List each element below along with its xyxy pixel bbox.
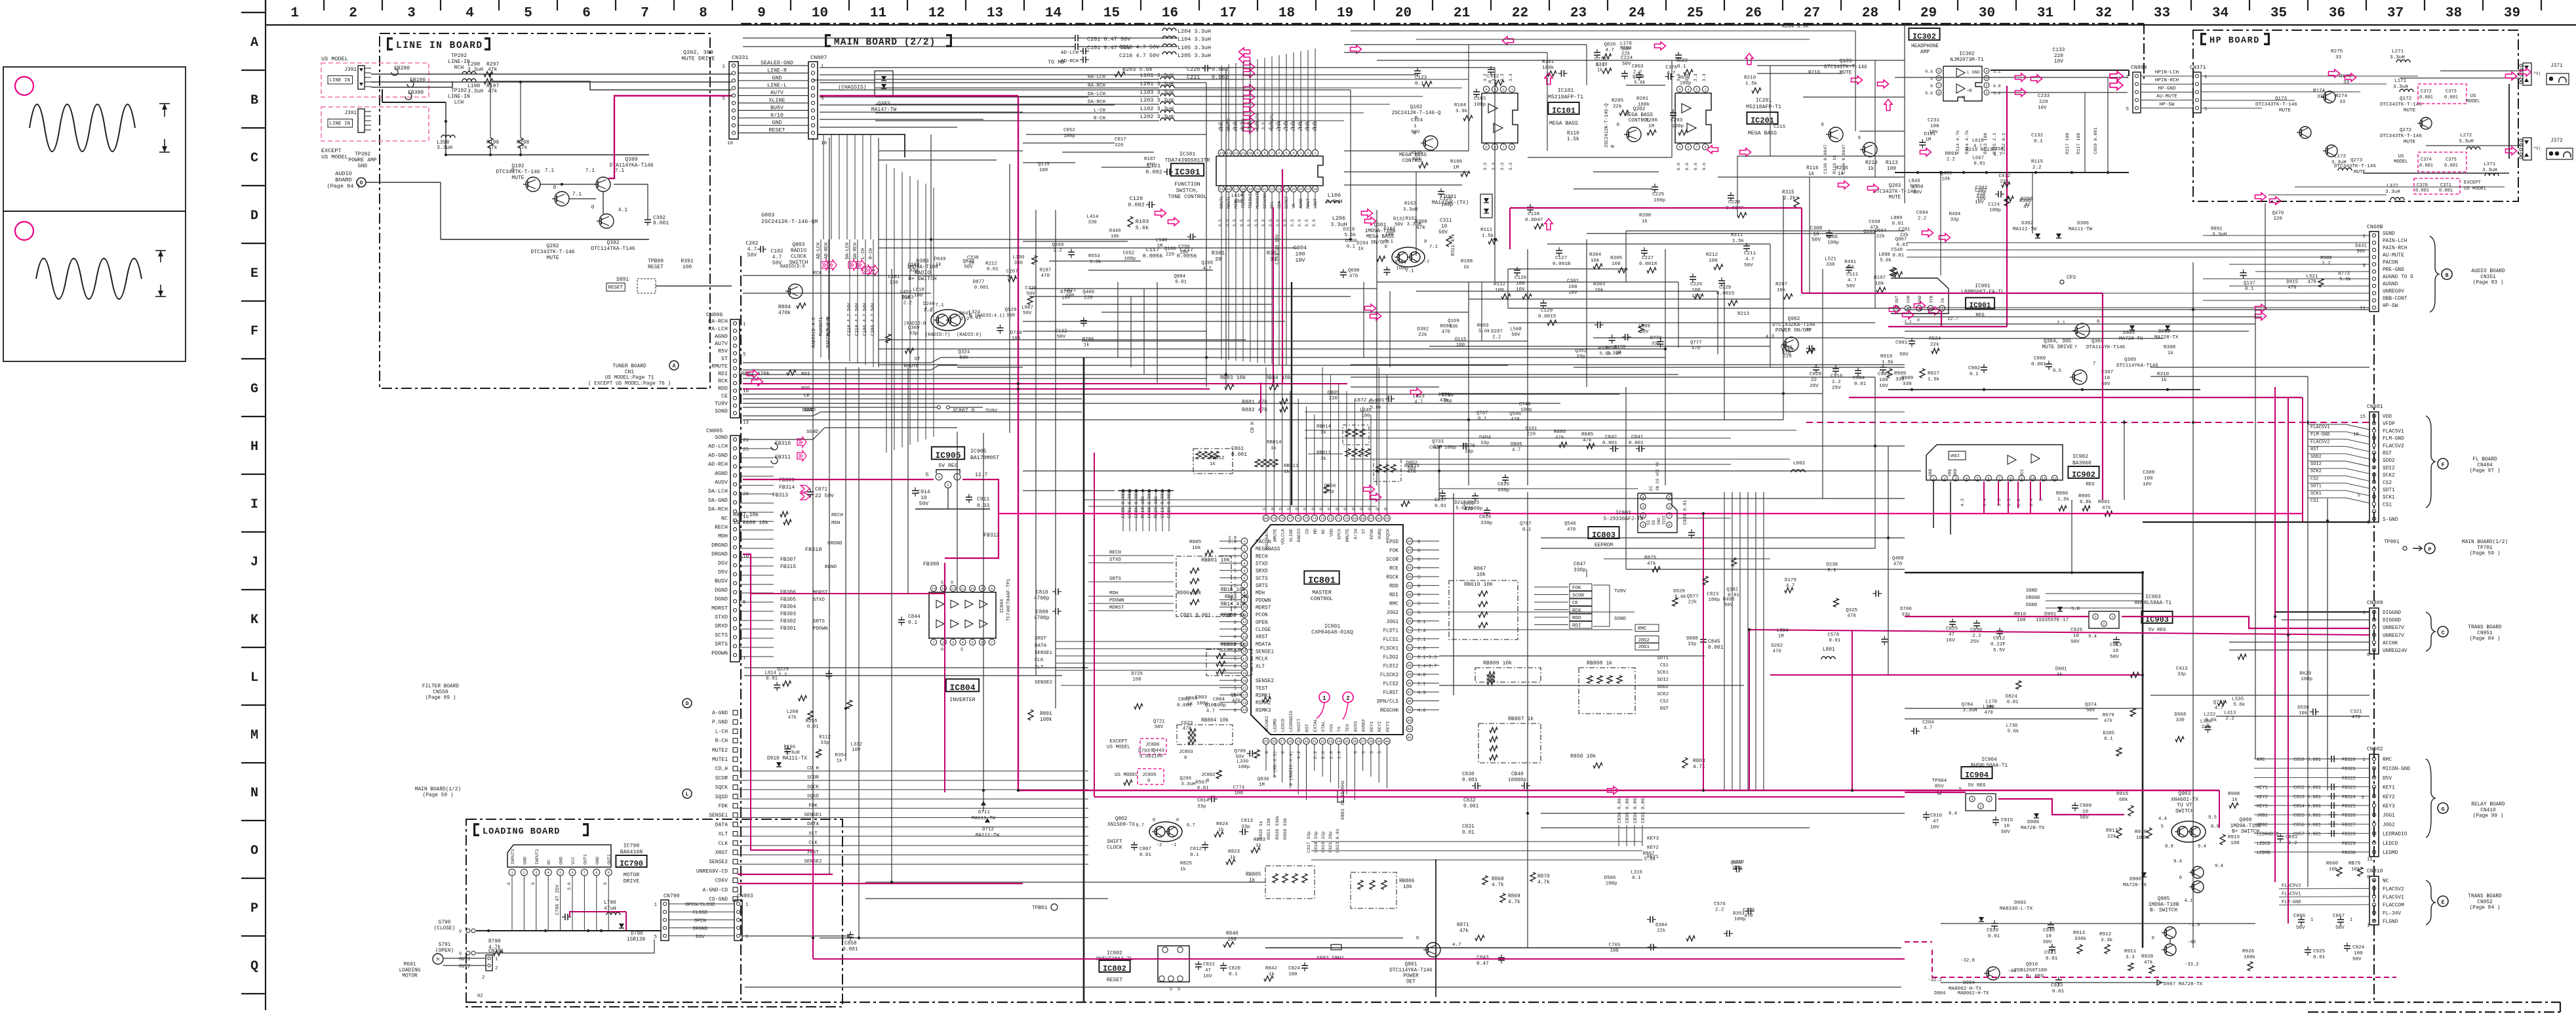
svg-text:L201 3.3uH: L201 3.3uH bbox=[1140, 81, 1174, 87]
svg-text:FLACCOM: FLACCOM bbox=[2383, 903, 2404, 908]
svg-text:CN806: CN806 bbox=[706, 312, 723, 318]
svg-text:D5V: D5V bbox=[718, 561, 728, 567]
svg-text:0: 0 bbox=[1424, 239, 1427, 245]
svg-text:0.01: 0.01 bbox=[1973, 161, 1985, 167]
svg-text:MA728-TX: MA728-TX bbox=[2119, 336, 2143, 342]
svg-text:IN: IN bbox=[1941, 298, 1945, 303]
svg-text:XLINE: XLINE bbox=[1289, 529, 1294, 542]
svg-text:32: 32 bbox=[1320, 739, 1325, 744]
svg-text:30: 30 bbox=[1304, 739, 1309, 744]
svg-text:US: US bbox=[2470, 94, 2476, 99]
svg-text:FB390: FB390 bbox=[408, 90, 424, 96]
svg-text:Q909: Q909 bbox=[2240, 818, 2252, 823]
svg-text:FB303: FB303 bbox=[780, 611, 796, 617]
svg-text:10: 10 bbox=[812, 6, 828, 21]
svg-text:Q374: Q374 bbox=[2085, 702, 2097, 708]
svg-text:5: 5 bbox=[1234, 562, 1237, 567]
magenta into IC905 bbox=[743, 479, 934, 480]
circled F bbox=[2438, 458, 2448, 469]
svg-text:FLDI2: FLDI2 bbox=[1383, 664, 1399, 669]
svg-text:FLSCK1: FLSCK1 bbox=[1380, 646, 1398, 651]
svg-text:XN4601-TX: XN4601-TX bbox=[2171, 798, 2198, 803]
magenta +B vertical bbox=[2006, 86, 2008, 275]
svg-text:220: 220 bbox=[2039, 100, 2048, 105]
svg-text:2.2: 2.2 bbox=[1313, 751, 1318, 759]
svg-text:1SS355TE-17: 1SS355TE-17 bbox=[2036, 618, 2069, 623]
svg-text:AUDIO: AUDIO bbox=[335, 171, 352, 177]
svg-text:1k: 1k bbox=[936, 262, 941, 268]
svg-text:LEDMD: LEDMD bbox=[2257, 851, 2270, 856]
svg-text:0.001: 0.001 bbox=[1602, 441, 1617, 446]
magenta bright bus 783 bbox=[999, 513, 2303, 514]
svg-text:C912: C912 bbox=[1993, 636, 2006, 641]
svg-text:L818: L818 bbox=[913, 287, 924, 293]
svg-text:2.4: 2.4 bbox=[1417, 628, 1426, 634]
svg-text:100: 100 bbox=[1039, 168, 1048, 173]
svg-text:48: 48 bbox=[1408, 681, 1412, 686]
svg-text:7: 7 bbox=[1937, 83, 1939, 88]
svg-text:26: 26 bbox=[1299, 187, 1303, 192]
svg-text:AUSV: AUSV bbox=[715, 480, 728, 486]
svg-text:TU9V: TU9V bbox=[715, 401, 728, 407]
svg-text:SGND: SGND bbox=[2383, 232, 2395, 237]
svg-text:SWITCH: SWITCH bbox=[2175, 809, 2194, 814]
svg-text:AUGND: AUGND bbox=[2383, 282, 2398, 287]
magenta top right runs bbox=[1510, 207, 1802, 209]
svg-text:JOG1: JOG1 bbox=[2257, 813, 2268, 819]
svg-text:27: 27 bbox=[1280, 739, 1284, 744]
svg-text:A: A bbox=[250, 35, 258, 51]
svg-text:3.5: 3.5 bbox=[1247, 122, 1252, 130]
svg-text:SK CS VCC NC: SK CS VCC NC bbox=[1655, 461, 1660, 491]
svg-text:2: 2 bbox=[1642, 514, 1644, 518]
svg-text:R850 10k: R850 10k bbox=[1570, 753, 1596, 760]
pink arrows L106 bbox=[1361, 209, 1372, 217]
svg-text:R214 4.7k: R214 4.7k bbox=[1965, 130, 1970, 154]
magenta long horizontal 1205 bbox=[1018, 790, 2219, 791]
svg-text:L738: L738 bbox=[1912, 184, 1924, 190]
svg-text:2: 2 bbox=[947, 483, 949, 487]
svg-text:3.5: 3.5 bbox=[1312, 122, 1317, 130]
svg-text:L: L bbox=[686, 792, 689, 798]
svg-text:L222: L222 bbox=[2204, 712, 2215, 718]
svg-text:0: 0 bbox=[1616, 123, 1619, 128]
svg-text:D6V: D6V bbox=[696, 935, 705, 940]
svg-text:45: 45 bbox=[1408, 708, 1412, 712]
svg-text:VREF: VREF bbox=[1950, 454, 1960, 458]
svg-text:C228: C228 bbox=[1728, 200, 1741, 205]
svg-text:100: 100 bbox=[1709, 258, 1718, 264]
svg-text:RMC: RMC bbox=[1638, 626, 1647, 632]
svg-text:68k: 68k bbox=[2119, 798, 2128, 803]
svg-text:100k: 100k bbox=[1040, 718, 1052, 723]
IC790 pins bbox=[509, 869, 515, 876]
svg-text:LEDCD: LEDCD bbox=[2383, 842, 2398, 847]
svg-text:35: 35 bbox=[1345, 739, 1349, 744]
middle band extra verticals bbox=[1117, 282, 1119, 357]
svg-text:L101 3.3uH: L101 3.3uH bbox=[1140, 72, 1174, 79]
svg-text:RSCK: RSCK bbox=[1386, 575, 1398, 580]
LOADING BOARD title bbox=[477, 823, 479, 827]
S791 wire bbox=[476, 952, 518, 954]
svg-text:4.8: 4.8 bbox=[1417, 646, 1426, 651]
svg-text:2: 2 bbox=[1943, 476, 1945, 481]
svg-text:0: 0 bbox=[591, 205, 595, 211]
IC301 pins top bbox=[1218, 150, 1225, 156]
svg-text:MD: MD bbox=[1313, 529, 1318, 534]
svg-text:DGND: DGND bbox=[715, 597, 728, 603]
transistor Q192 bbox=[526, 177, 540, 192]
svg-text:50V: 50V bbox=[1622, 62, 1631, 67]
svg-text:STXD: STXD bbox=[715, 615, 728, 620]
svg-text:0.22F: 0.22F bbox=[1991, 642, 2006, 647]
svg-text:FLRST: FLRST bbox=[1383, 691, 1399, 696]
svg-text:47: 47 bbox=[1949, 632, 1954, 638]
svg-text:10V: 10V bbox=[1930, 825, 1939, 830]
svg-text:L667: L667 bbox=[1972, 155, 1984, 161]
svg-text:G: G bbox=[2441, 806, 2444, 813]
svg-text:D520: D520 bbox=[1345, 239, 1357, 244]
svg-text:220: 220 bbox=[2273, 216, 2282, 222]
svg-text:R926: R926 bbox=[2242, 949, 2255, 954]
svg-text:D750: D750 bbox=[1060, 290, 1072, 295]
svg-text:D706: D706 bbox=[1900, 607, 1912, 612]
svg-text:SDI2: SDI2 bbox=[2383, 466, 2395, 471]
svg-text:0.0056: 0.0056 bbox=[1143, 253, 1163, 260]
svg-text:24: 24 bbox=[1284, 187, 1289, 192]
IC802 label bbox=[1099, 960, 1130, 972]
svg-text:D815: D815 bbox=[2286, 279, 2298, 285]
svg-text:CE: CE bbox=[1572, 601, 1579, 606]
svg-text:R840: R840 bbox=[1226, 931, 1238, 937]
svg-text:1k: 1k bbox=[1320, 457, 1326, 462]
svg-text:0: 0 bbox=[1153, 818, 1155, 823]
Q905 transistors bbox=[2164, 927, 2176, 939]
svg-text:C321: C321 bbox=[2350, 710, 2362, 715]
svg-text:8: 8 bbox=[1704, 145, 1706, 150]
svg-text:100: 100 bbox=[1456, 343, 1465, 348]
svg-text:1.5k: 1.5k bbox=[1928, 377, 1940, 382]
svg-text:5: 5 bbox=[1285, 151, 1287, 155]
svg-text:50V: 50V bbox=[2080, 815, 2089, 821]
svg-text:C375: C375 bbox=[2446, 157, 2457, 163]
svg-text:70: 70 bbox=[1345, 516, 1349, 521]
svg-text:6: 6 bbox=[1687, 145, 1689, 150]
svg-text:FB321: FB321 bbox=[2342, 767, 2356, 772]
svg-text:L535: L535 bbox=[2232, 697, 2244, 702]
svg-text:8: 8 bbox=[1937, 91, 1939, 95]
svg-text:50V: 50V bbox=[1913, 190, 1922, 195]
svg-text:100p: 100p bbox=[1827, 240, 1839, 245]
svg-text:3.3uH: 3.3uH bbox=[1403, 207, 1417, 213]
svg-text:5: 5 bbox=[743, 352, 746, 357]
IC905 label bbox=[932, 447, 964, 459]
svg-text:JOG1: JOG1 bbox=[1638, 645, 1650, 650]
svg-text:3.5: 3.5 bbox=[1269, 122, 1273, 130]
svg-text:R174: R174 bbox=[2313, 89, 2326, 94]
svg-text:R909: R909 bbox=[1901, 376, 1914, 381]
HP wires bbox=[2201, 75, 2418, 77]
svg-text:R5V: R5V bbox=[1935, 784, 1944, 790]
svg-text:50V: 50V bbox=[2110, 655, 2119, 660]
svg-text:3: 3 bbox=[1299, 151, 1301, 155]
bottom long rails bbox=[745, 986, 1901, 988]
svg-text:16V: 16V bbox=[1946, 638, 1955, 643]
svg-text:CN810: CN810 bbox=[2367, 868, 2383, 874]
svg-text:C817 33p: C817 33p bbox=[1307, 831, 1312, 853]
svg-text:5.5V: 5.5V bbox=[1993, 648, 2006, 653]
svg-text:EPCS: EPCS bbox=[1338, 529, 1343, 539]
svg-text:4.7: 4.7 bbox=[1848, 278, 1857, 283]
svg-text:4.4: 4.4 bbox=[2158, 817, 2167, 822]
svg-text:C844: C844 bbox=[908, 615, 921, 620]
svg-text:CS1: CS1 bbox=[1660, 663, 1669, 668]
svg-text:A: A bbox=[673, 363, 676, 369]
svg-text:0.1: 0.1 bbox=[2245, 287, 2254, 292]
IC790 pin wires down bbox=[511, 887, 513, 931]
svg-text:MDH: MDH bbox=[1256, 591, 1265, 596]
svg-text:RESET: RESET bbox=[648, 264, 664, 270]
svg-text:MODEL: MODEL bbox=[2394, 159, 2408, 165]
svg-text:MUTE: MUTE bbox=[2279, 108, 2291, 113]
svg-text:L350: L350 bbox=[1013, 255, 1025, 260]
svg-text:OPEN/CLOSE: OPEN/CLOSE bbox=[685, 903, 715, 908]
legend waveform 2 bbox=[36, 258, 142, 299]
svg-text:R915: R915 bbox=[2228, 835, 2240, 840]
svg-text:26: 26 bbox=[1272, 739, 1277, 744]
svg-text:R906: R906 bbox=[2056, 491, 2069, 497]
svg-text:0.01: 0.01 bbox=[1897, 243, 1909, 248]
thick vertical 1970 bbox=[1291, 282, 1292, 505]
svg-text:SCK2: SCK2 bbox=[2383, 474, 2395, 479]
svg-text:Q202: Q202 bbox=[1633, 107, 1646, 112]
svg-text:50V: 50V bbox=[1744, 263, 1753, 268]
svg-text:C923: C923 bbox=[2051, 983, 2063, 988]
svg-text:L: L bbox=[250, 670, 258, 685]
svg-text:C107: C107 bbox=[1384, 227, 1396, 232]
svg-text:XRST: XRST bbox=[715, 850, 728, 856]
svg-text:PAIN-LCH: PAIN-LCH bbox=[2383, 239, 2408, 244]
svg-text:SCK2: SCK2 bbox=[1657, 692, 1669, 697]
IC201 pins bbox=[1676, 86, 1682, 92]
svg-text:0.001: 0.001 bbox=[2419, 163, 2433, 169]
svg-text:CN805: CN805 bbox=[706, 428, 723, 434]
svg-text:FLCS1: FLCS1 bbox=[1383, 638, 1399, 643]
svg-text:FB318: FB318 bbox=[805, 546, 822, 553]
svg-text:100: 100 bbox=[914, 293, 922, 298]
svg-text:C103: C103 bbox=[1474, 96, 1486, 102]
magenta bus 1029 bbox=[1770, 674, 2143, 676]
svg-text:5V REG: 5V REG bbox=[1968, 783, 1986, 788]
svg-text:50V: 50V bbox=[1438, 230, 1448, 235]
svg-text:UNREG9V-CD: UNREG9V-CD bbox=[696, 868, 728, 874]
magenta cd6v bus bbox=[738, 883, 1023, 884]
svg-text:EPSK: EPSK bbox=[1370, 528, 1375, 539]
pink arrows CN608 bbox=[2255, 304, 2266, 312]
svg-text:^V|: ^V| bbox=[2533, 71, 2541, 76]
svg-text:FB290: FB290 bbox=[394, 66, 410, 71]
svg-text:MA111-TW: MA111-TW bbox=[976, 833, 1000, 838]
svg-text:KEY3: KEY3 bbox=[2383, 804, 2395, 809]
svg-text:IC802: IC802 bbox=[1103, 964, 1126, 973]
Q910 transistor bbox=[1987, 967, 2000, 980]
svg-text:33p: 33p bbox=[1951, 217, 1959, 222]
IC804 pins bottom bbox=[930, 639, 936, 645]
svg-text:L619: L619 bbox=[1972, 138, 1984, 144]
svg-text:33: 33 bbox=[2343, 80, 2350, 85]
svg-text:FLAC5V2: FLAC5V2 bbox=[2383, 887, 2404, 892]
svg-text:68: 68 bbox=[1360, 516, 1365, 521]
svg-text:0.1-3.5: 0.1-3.5 bbox=[1417, 655, 1437, 660]
gnd rail IC905 bbox=[915, 508, 990, 510]
svg-text:100: 100 bbox=[1132, 677, 1141, 682]
svg-text:RMUTE: RMUTE bbox=[1345, 529, 1351, 542]
svg-text:R308: R308 bbox=[2164, 345, 2176, 350]
svg-text:R308: R308 bbox=[2320, 256, 2332, 261]
svg-text:Q546: Q546 bbox=[1509, 412, 1521, 417]
svg-text:R916: R916 bbox=[2116, 792, 2129, 797]
svg-text:0.082: 0.082 bbox=[1128, 202, 1145, 209]
svg-text:-32.8: -32.8 bbox=[1960, 958, 1975, 964]
svg-text:100: 100 bbox=[2354, 951, 2363, 956]
wire LINE-L bbox=[371, 81, 452, 87]
svg-text:OUT2: OUT2 bbox=[607, 854, 612, 864]
svg-text:FB325: FB325 bbox=[2342, 804, 2356, 809]
hatch arrows pink bbox=[821, 260, 830, 270]
svg-text:Q305: Q305 bbox=[2124, 357, 2137, 363]
svg-text:12.7: 12.7 bbox=[1947, 317, 1958, 322]
svg-text:INPUT2: INPUT2 bbox=[535, 849, 540, 864]
legend arrows 2 bbox=[155, 250, 166, 251]
svg-text:C857 0.001: C857 0.001 bbox=[2293, 832, 2321, 838]
svg-text:100: 100 bbox=[1235, 791, 1243, 796]
svg-text:0: 0 bbox=[1417, 549, 1420, 554]
svg-text:0.001: 0.001 bbox=[1629, 441, 1644, 446]
svg-text:1: 1 bbox=[821, 64, 824, 70]
IC801 left pins bbox=[1241, 538, 1248, 544]
svg-text:VFDP: VFDP bbox=[2383, 422, 2395, 427]
svg-text:7: 7 bbox=[991, 640, 993, 645]
svg-text:R274: R274 bbox=[2335, 94, 2348, 99]
svg-text:10k: 10k bbox=[1476, 573, 1486, 578]
svg-text:MUTE: MUTE bbox=[511, 175, 524, 181]
svg-text:DBB-CONT: DBB-CONT bbox=[2383, 296, 2408, 302]
svg-text:R660: R660 bbox=[2326, 861, 2339, 866]
svg-text:1M: 1M bbox=[1925, 137, 1931, 142]
svg-text:0.001: 0.001 bbox=[2444, 163, 2458, 169]
svg-text:5: 5 bbox=[745, 935, 748, 940]
svg-text:DRIVE: DRIVE bbox=[624, 879, 640, 885]
svg-text:L521: L521 bbox=[1825, 256, 1836, 262]
svg-text:5: 5 bbox=[1287, 508, 1292, 510]
svg-text:RBB02 1k: RBB02 1k bbox=[1221, 613, 1246, 619]
svg-text:10: 10 bbox=[1441, 224, 1448, 230]
svg-text:0: 0 bbox=[1343, 508, 1349, 510]
svg-text:MUTE DRIVE: MUTE DRIVE bbox=[681, 56, 715, 62]
svg-text:R212: R212 bbox=[985, 262, 997, 267]
svg-text:100: 100 bbox=[1385, 232, 1394, 237]
svg-text:13: 13 bbox=[1227, 151, 1231, 155]
svg-text:470: 470 bbox=[1847, 613, 1855, 619]
svg-text:3.5: 3.5 bbox=[1261, 122, 1266, 130]
svg-text:61: 61 bbox=[1408, 566, 1412, 571]
svg-text:MEGA BASS: MEGA BASS bbox=[1625, 113, 1653, 118]
svg-text:DA-RCH: DA-RCH bbox=[708, 507, 728, 513]
svg-text:SCOR: SCOR bbox=[715, 775, 728, 781]
svg-text:330: 330 bbox=[1088, 220, 1097, 225]
magenta vertical 3385 bbox=[2219, 790, 2220, 828]
svg-text:Q115: Q115 bbox=[1038, 162, 1050, 167]
svg-text:1k: 1k bbox=[1187, 702, 1193, 707]
svg-text:11: 11 bbox=[1241, 151, 1246, 155]
svg-text:R868: R868 bbox=[1186, 696, 1198, 701]
svg-text:59: 59 bbox=[1408, 584, 1412, 588]
svg-text:C229: C229 bbox=[1719, 285, 1732, 291]
svg-text:VCC: VCC bbox=[571, 857, 576, 864]
svg-text:R112: R112 bbox=[1494, 282, 1506, 287]
svg-text:EXCEPT: EXCEPT bbox=[2464, 180, 2482, 186]
svg-text:5.6k: 5.6k bbox=[1345, 233, 1357, 238]
svg-text:R217 100: R217 100 bbox=[2065, 132, 2071, 154]
svg-text:L204 3.3uH: L204 3.3uH bbox=[1178, 28, 1211, 35]
svg-text:CN351: CN351 bbox=[2480, 275, 2496, 280]
svg-text:J391: J391 bbox=[344, 110, 357, 116]
svg-text:Q884: Q884 bbox=[1174, 274, 1185, 279]
svg-text:IC905: IC905 bbox=[970, 449, 987, 455]
svg-text:1: 1 bbox=[495, 957, 498, 962]
svg-text:FB314: FB314 bbox=[779, 485, 795, 491]
svg-text:0.1: 0.1 bbox=[1417, 620, 1426, 625]
svg-text:TC74HCT04AF-TP1: TC74HCT04AF-TP1 bbox=[1006, 579, 1012, 621]
svg-text:C203: C203 bbox=[1671, 118, 1683, 123]
jumper JC807 bbox=[938, 406, 941, 409]
svg-text:3.5: 3.5 bbox=[1290, 122, 1295, 130]
svg-text:R927: R927 bbox=[1928, 371, 1939, 376]
svg-text:RDI: RDI bbox=[1572, 624, 1581, 629]
svg-text:R801: R801 bbox=[1040, 712, 1052, 717]
svg-text:10V: 10V bbox=[1179, 251, 1189, 256]
svg-text:ACCHK2: ACCHK2 bbox=[1265, 716, 1270, 732]
svg-text:CLK: CLK bbox=[719, 841, 728, 847]
svg-text:C823: C823 bbox=[1707, 592, 1719, 597]
svg-text:FLAC5V2: FLAC5V2 bbox=[2383, 444, 2404, 449]
svg-text:R851 330: R851 330 bbox=[1267, 818, 1272, 840]
svg-text:6.6: 6.6 bbox=[1685, 163, 1690, 171]
svg-text:(Page 84 ): (Page 84 ) bbox=[2470, 637, 2501, 642]
svg-text:Q902: Q902 bbox=[1788, 317, 1800, 322]
svg-text:Q836: Q836 bbox=[1258, 777, 1269, 782]
svg-text:10V: 10V bbox=[1975, 200, 1984, 205]
svg-text:R619 18k: R619 18k bbox=[1141, 496, 1146, 518]
svg-text:3.5: 3.5 bbox=[1276, 219, 1280, 227]
svg-text:C052: C052 bbox=[1063, 128, 1075, 133]
svg-text:1M: 1M bbox=[1615, 351, 1621, 356]
svg-text:3.3: 3.3 bbox=[1492, 163, 1496, 171]
svg-text:MOUTL: MOUTL bbox=[1227, 195, 1231, 209]
svg-text:0.001: 0.001 bbox=[974, 285, 989, 291]
magenta IC904 in bbox=[1905, 792, 1966, 793]
svg-text:N: N bbox=[250, 786, 258, 801]
svg-text:R446: R446 bbox=[1109, 229, 1121, 234]
svg-text:1: 1 bbox=[2310, 918, 2313, 923]
EXCEPT US MODEL dashed box C370 bbox=[2414, 178, 2460, 194]
svg-text:US MODEL: US MODEL bbox=[321, 154, 348, 161]
svg-text:1: 1 bbox=[1322, 695, 1326, 702]
svg-text:C854 0.001: C854 0.001 bbox=[2293, 804, 2321, 809]
svg-text:(Page 99 ): (Page 99 ) bbox=[2473, 814, 2504, 819]
svg-text:2.2: 2.2 bbox=[2322, 262, 2330, 267]
svg-text:INPUT1: INPUT1 bbox=[511, 849, 515, 864]
